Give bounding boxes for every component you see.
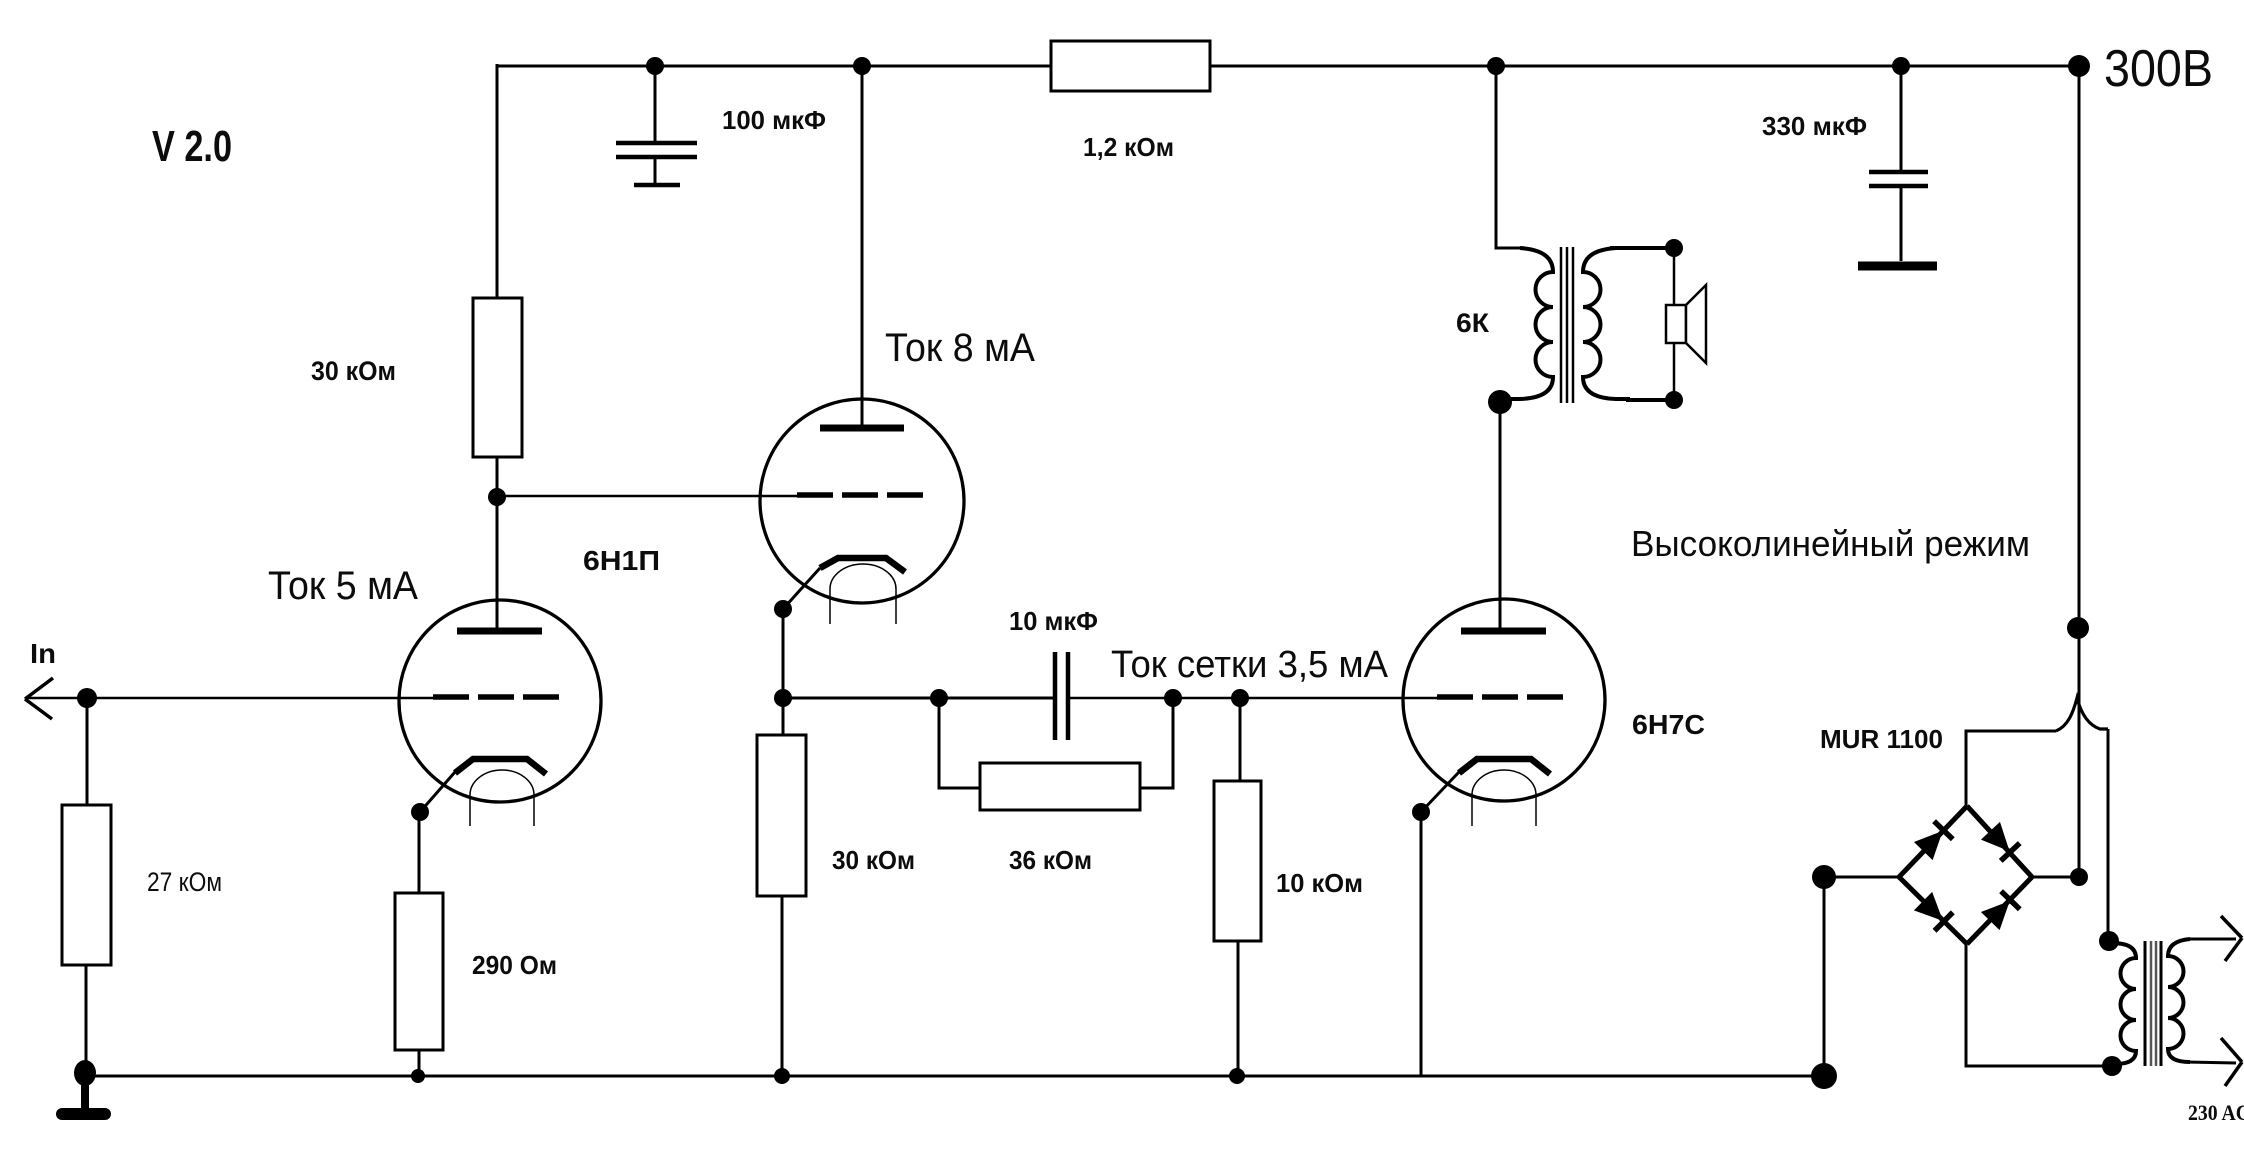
wire V2 cathode lead <box>783 568 820 609</box>
wire node A to V2 grid <box>497 495 800 498</box>
node T1 primary bottom big dot <box>1488 390 1512 414</box>
ground stem <box>81 1073 89 1110</box>
transformer T1 core <box>1561 247 1573 403</box>
wire grid line right segment (C2 to V3 grid) <box>1068 697 1439 700</box>
V1 heater arc <box>470 770 534 826</box>
wire V1 cathode lead <box>420 772 455 812</box>
wire down to output transformer primary <box>1496 66 1522 248</box>
transformer T2 core <box>2145 941 2161 1066</box>
wire input to V1 grid <box>25 697 436 700</box>
transformer T2 secondary winding <box>2168 939 2190 1062</box>
capacitor C3 330 мкФ junction dot <box>1892 57 1910 75</box>
resistor R4 290 Ом (V1 cathode bias) <box>395 893 443 1050</box>
svg-text:300В: 300В <box>2104 40 2213 98</box>
triode V3 6Н7С envelope <box>1403 599 1605 801</box>
triode V2 6Н1П section b envelope <box>760 399 964 603</box>
node dot on B+ vertical <box>2067 617 2089 639</box>
svg-text:30 кОм: 30 кОм <box>311 356 396 386</box>
wire grid line left segment (V2 cathode to C2) <box>783 697 1055 700</box>
wire V3 cathode down to ground rail <box>1420 812 1423 1076</box>
node 10к top junction dot <box>1231 689 1249 707</box>
wire top rail left segment <box>497 65 1051 68</box>
node V2 anode junction dot on top rail <box>853 57 871 75</box>
capacitor C3 330 мкФ plates <box>1869 172 1928 186</box>
svg-text:30 кОм: 30 кОм <box>832 845 915 875</box>
wire T2 secondary bottom lead with arrow <box>2186 1038 2242 1086</box>
node 300В corner dot <box>2068 55 2090 77</box>
ground bar <box>56 1108 111 1120</box>
wire bridge bottom to T2 primary bottom <box>1966 944 2105 1066</box>
svg-text:Ток 5 мА: Ток 5 мА <box>268 564 418 608</box>
node V2 cathode bottom junction dot <box>774 689 792 707</box>
node 36к right junction dot <box>1164 689 1182 707</box>
svg-text:Высоколинейный режим: Высоколинейный режим <box>1631 523 2030 564</box>
ground bar under C3 <box>1858 262 1937 271</box>
node V1 cathode dot <box>411 803 429 821</box>
wire input dot down to R2 <box>86 698 89 805</box>
node V3 cathode dot <box>1412 803 1430 821</box>
wire cathode dot to R4 <box>418 812 421 893</box>
svg-text:290 Ом: 290 Ом <box>472 950 557 980</box>
wire 10к bottom to ground rail <box>1237 941 1240 1076</box>
svg-text:10 мкФ: 10 мкФ <box>1009 606 1098 636</box>
wire speaker top lead <box>1673 248 1676 305</box>
V3 anode plate <box>1461 628 1546 635</box>
svg-text:Ток 8 мА: Ток 8 мА <box>885 326 1035 370</box>
wire bridge left lead <box>1830 876 1899 879</box>
wire R5 bottom to ground rail <box>781 896 784 1076</box>
V3 cathode <box>1459 759 1550 774</box>
node bridge left big dot <box>1812 865 1836 889</box>
wire right B+ vertical down to bridge <box>2078 66 2081 877</box>
wire C1 bottom lead <box>654 159 657 183</box>
resistor R2 27 кОм (grid leak) <box>62 805 111 965</box>
V2 cathode <box>820 558 905 572</box>
node T2 primary bottom dot <box>2102 1056 2122 1076</box>
speaker LS1 <box>1666 285 1706 363</box>
ground bar under C1 <box>634 183 680 188</box>
svg-text:Ток сетки 3,5 мА: Ток сетки 3,5 мА <box>1111 644 1389 686</box>
ground node dot <box>74 1060 96 1086</box>
svg-text:100 мкФ: 100 мкФ <box>722 105 826 135</box>
capacitor C2 10 мкФ plates <box>1055 652 1068 740</box>
node speaker top dot <box>1665 239 1683 257</box>
capacitor C1 100 мкФ plates <box>616 143 697 157</box>
node R4 ground dot <box>411 1069 425 1083</box>
node V2 cathode dot <box>774 600 792 618</box>
wire top rail right segment <box>1210 65 2080 68</box>
node 36к left junction dot <box>930 689 948 707</box>
wire speaker bottom lead <box>1673 343 1676 400</box>
wire T1 secondary top lead <box>1610 246 1674 250</box>
wire C3 bottom lead <box>1900 188 1903 261</box>
wire bridge right lead <box>2032 876 2072 879</box>
svg-text:36 кОм: 36 кОм <box>1009 845 1092 875</box>
V2 anode plate <box>820 425 904 432</box>
svg-text:6Н7С: 6Н7С <box>1632 709 1705 740</box>
node input junction dot <box>77 688 97 708</box>
wire hop over B+ vertical <box>2056 698 2108 731</box>
wire T1 secondary bottom lead <box>1626 398 1674 402</box>
svg-text:1,2 кОм: 1,2 кОм <box>1083 132 1174 162</box>
node 10к ground dot <box>1229 1068 1245 1084</box>
resistor R3 1,2 кОм (B+ dropper) <box>1051 41 1210 91</box>
wire to C3 <box>1900 66 1903 170</box>
svg-text:10 кОм: 10 кОм <box>1276 868 1363 898</box>
wire top-left drop to R1 <box>496 64 499 298</box>
diode D2 (top-right edge) <box>1981 822 2020 861</box>
wire ground rail (bottom) <box>85 1075 1824 1078</box>
wire R4 bottom to ground rail <box>418 1050 421 1076</box>
V2 heater arc <box>830 564 896 624</box>
node A junction dot (R1 / tube V1 anode / V2 grid) <box>488 488 506 506</box>
wire T1 primary bottom to V3 anode <box>1499 402 1502 628</box>
resistor R1 30 кОм (anode load of first triode) <box>473 298 522 457</box>
transformer T2 primary winding <box>2112 943 2136 1064</box>
node ground rail end big dot <box>1811 1063 1837 1089</box>
capacitor C1 100 мкФ top junction dot <box>646 57 664 75</box>
transformer T1 primary winding <box>1506 248 1553 399</box>
svg-text:6Н1П: 6Н1П <box>583 545 660 576</box>
wire R2 bottom to ground rail <box>85 965 88 1074</box>
wire T2 secondary top lead with arrow <box>2186 916 2242 961</box>
wire hop down to T2 primary top <box>2107 729 2110 941</box>
svg-text:In: In <box>30 638 56 669</box>
diode D1 (left-top edge) <box>1914 821 1953 860</box>
V1 grid (dashed) <box>433 694 563 700</box>
resistor R6 36 кОм <box>980 763 1140 810</box>
resistor R7 10 кОм <box>1214 781 1261 941</box>
wire R1 bottom to node A <box>496 457 499 500</box>
svg-text:230 AC: 230 AC <box>2188 1100 2244 1125</box>
wire bridge top to hop <box>1966 731 2056 806</box>
wire 36к left lead <box>939 698 980 788</box>
wire bridge left down to ground rail <box>1823 877 1826 1070</box>
V3 grid (dashed) <box>1437 694 1567 700</box>
V2 grid (dashed) <box>797 492 923 498</box>
svg-text:MUR 1100: MUR 1100 <box>1820 724 1943 754</box>
wire V2 cathode dot down <box>782 609 785 737</box>
V1 anode plate <box>457 628 542 635</box>
svg-text:V 2.0: V 2.0 <box>152 122 232 171</box>
V3 heater arc <box>1472 770 1536 826</box>
svg-text:27 кОм: 27 кОм <box>147 867 222 897</box>
wire 36к right lead <box>1140 698 1173 788</box>
node R5 ground dot <box>774 1068 790 1084</box>
wire to C1 <box>654 66 657 141</box>
wire node A down to V1 anode <box>496 497 499 628</box>
V1 cathode <box>455 759 546 774</box>
wire top rail to V2 anode <box>861 66 864 425</box>
wire 10к top lead <box>1239 698 1242 781</box>
node output transformer feed junction dot <box>1487 57 1505 75</box>
bridge rectifier D1-D4 frame <box>1899 806 2032 944</box>
diode D3 (left-bottom edge) <box>1914 892 1953 931</box>
diode D4 (bottom-right edge) <box>1981 891 2020 930</box>
transformer T1 secondary winding <box>1583 248 1630 399</box>
triode V1 6Н1П section a envelope <box>399 600 601 802</box>
svg-text:6К: 6К <box>1456 308 1490 338</box>
wire V3 cathode lead <box>1421 772 1459 812</box>
node speaker bottom dot <box>1665 391 1683 409</box>
svg-text:330 мкФ: 330 мкФ <box>1762 111 1867 141</box>
input arrow head <box>25 678 53 719</box>
node bridge right dot <box>2070 868 2088 886</box>
node T2 primary top dot <box>2099 931 2119 951</box>
resistor R5 30 кОм (V2 cathode) <box>757 735 806 896</box>
